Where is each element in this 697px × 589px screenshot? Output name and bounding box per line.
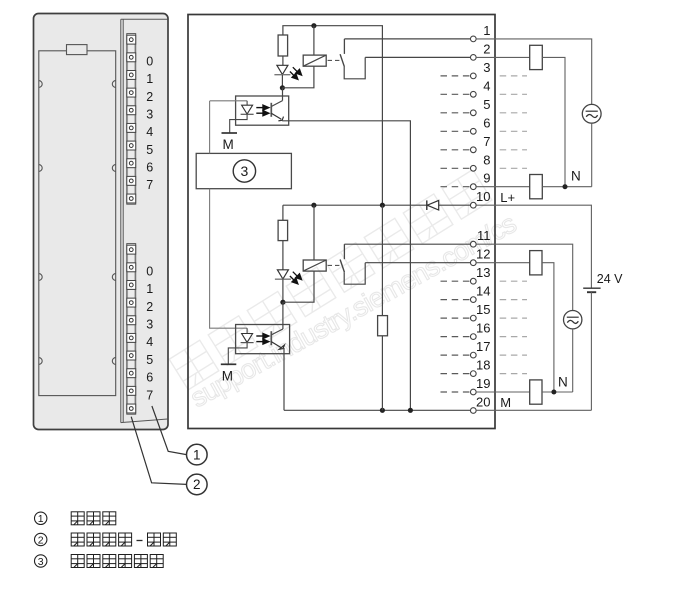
wire terminal 19 through load E4 <box>476 391 530 393</box>
wire rail to R3 <box>381 205 383 315</box>
svg-text:0: 0 <box>146 264 153 278</box>
svg-text:16: 16 <box>476 321 490 336</box>
U1 input LED <box>242 105 253 114</box>
callout circle 1 <box>187 444 208 465</box>
terminal 15 <box>470 315 476 321</box>
svg-text:13: 13 <box>476 265 490 280</box>
wire rail2 to R2 <box>282 205 284 220</box>
wire box3 to U1 <box>209 101 211 154</box>
terminal 12 <box>470 260 476 266</box>
load E4 <box>530 380 542 404</box>
load E1 <box>530 45 543 69</box>
mech link K2 <box>328 264 340 266</box>
svg-text:1: 1 <box>483 23 490 38</box>
module inner panel <box>39 51 116 396</box>
relay contact S2 <box>343 244 345 259</box>
terminal 6 <box>470 128 476 134</box>
callout circle 2 <box>187 474 208 495</box>
resistor R3 <box>378 316 388 336</box>
svg-text:7: 7 <box>146 388 153 402</box>
wire E3 to N node <box>542 263 554 392</box>
optocoupler U1 <box>236 96 289 125</box>
terminal 5 <box>470 110 476 116</box>
dashed stubs inside <box>441 75 471 77</box>
terminal 14 <box>470 297 476 303</box>
U1 coupling arrows <box>256 105 269 116</box>
terminal 17 <box>470 352 476 358</box>
AC source G1 <box>582 104 601 123</box>
optocoupler U2 <box>236 325 290 354</box>
terminal 9 <box>470 184 476 190</box>
svg-text:15: 15 <box>476 302 490 317</box>
wire G2 to N node <box>572 329 574 392</box>
mech link K1 <box>328 59 340 61</box>
leader line to callout 2 <box>131 417 186 485</box>
junction rail1/coil1 <box>311 23 316 28</box>
node N upper <box>563 184 568 189</box>
svg-text:N: N <box>558 374 568 389</box>
svg-text:3: 3 <box>146 318 153 332</box>
U2 coupling arrows <box>256 334 269 345</box>
svg-text:24 V: 24 V <box>597 272 623 286</box>
terminal 3 <box>470 73 476 79</box>
wire terminal 12 through load E3 <box>476 262 530 264</box>
wire LED2-node <box>282 279 284 302</box>
wire S1 to terminal 2 <box>365 56 470 58</box>
svg-text:5: 5 <box>483 97 490 112</box>
load E2 <box>530 175 543 199</box>
svg-text:0: 0 <box>146 55 153 69</box>
module column separator <box>120 19 122 422</box>
wire node-coil2 bottom <box>283 271 314 302</box>
svg-text:1: 1 <box>146 72 153 86</box>
module top strip line <box>121 18 168 20</box>
diode V3 <box>426 200 428 210</box>
svg-text:6: 6 <box>146 371 153 385</box>
terminal 2 <box>470 55 476 61</box>
terminal 4 <box>470 91 476 97</box>
wire U1 emitter to M rail <box>282 121 410 411</box>
wire S2 moving contact <box>344 263 365 285</box>
LED V2 emission arrows <box>290 272 302 284</box>
svg-text:20: 20 <box>476 395 490 410</box>
svg-text:3: 3 <box>146 107 153 121</box>
svg-text:L+: L+ <box>500 190 515 205</box>
LED V2 status <box>277 270 288 279</box>
wire L+ rail circuit 1 <box>283 26 383 206</box>
U1 phototransistor <box>270 103 272 117</box>
terminal 8 <box>470 165 476 171</box>
wire coil1 top to rail <box>313 26 315 55</box>
LED V1 emission arrows <box>290 67 302 79</box>
junction M rail/R3 <box>380 408 385 413</box>
svg-text:4: 4 <box>483 78 490 93</box>
terminal 1 <box>470 36 476 42</box>
svg-text:4: 4 <box>146 335 153 349</box>
svg-text:1: 1 <box>146 282 153 296</box>
terminal 19 <box>470 389 476 395</box>
legend item 1: 通道号 <box>35 512 47 524</box>
legend item 3: 背板总线接口 <box>35 555 47 567</box>
svg-text:8: 8 <box>483 152 490 167</box>
svg-text:1: 1 <box>193 447 201 462</box>
wire terminal 2 through load E1 <box>476 56 530 58</box>
svg-text:12: 12 <box>476 247 490 262</box>
svg-text:support.industry.siemens.com/c: support.industry.siemens.com/cs <box>185 208 521 413</box>
junction rail2/R3 <box>380 203 385 208</box>
legend item 2: 状态显示 - 绿色 <box>35 533 47 545</box>
svg-text:11: 11 <box>477 228 491 243</box>
terminal 20 <box>470 408 476 414</box>
wire M rail terminal 20 <box>284 409 470 411</box>
terminal 18 <box>470 371 476 377</box>
screw notches <box>39 81 42 88</box>
wire U2 emitter down <box>283 348 285 410</box>
resistor R1 <box>278 35 288 56</box>
wire U2 cathode to M <box>228 343 247 365</box>
svg-text:6: 6 <box>146 160 153 174</box>
U2 phototransistor <box>270 331 272 345</box>
wire terminal 1 to AC source 1 <box>476 39 592 105</box>
svg-text:3: 3 <box>483 60 490 75</box>
svg-text:2: 2 <box>146 90 153 104</box>
wire E1 to N node <box>542 57 565 186</box>
LED strip group 1 <box>127 244 136 415</box>
wire L+ to 24V battery <box>476 205 591 288</box>
leader line to callout 1 <box>152 406 187 455</box>
terminal 13 <box>470 278 476 284</box>
svg-text:2: 2 <box>483 41 490 56</box>
junction M rail/U1 emitter <box>408 408 413 413</box>
dashed stubs outside <box>500 75 527 77</box>
wire R2-LED2 <box>282 241 284 270</box>
terminal 10 <box>470 202 476 208</box>
wire node-coil1 bottom <box>282 66 314 88</box>
wire L+ rail terminal 10 <box>283 204 427 206</box>
backplane bus interface box 3 <box>196 153 291 188</box>
svg-text:9: 9 <box>483 171 490 186</box>
svg-text:7: 7 <box>483 134 490 149</box>
wire S1 to terminal 1 <box>344 38 470 40</box>
svg-text:18: 18 <box>476 358 490 373</box>
ground M circuit 2 <box>221 363 237 365</box>
terminal 11 <box>470 241 476 247</box>
svg-text:2: 2 <box>38 534 44 546</box>
svg-text:3: 3 <box>38 556 44 568</box>
svg-text:2: 2 <box>193 477 201 492</box>
svg-text:1: 1 <box>38 513 44 525</box>
svg-text:2: 2 <box>146 300 153 314</box>
AC source G2 <box>564 311 582 329</box>
wire coil2 top to rail <box>313 205 315 260</box>
watermark siemens <box>169 170 521 414</box>
wire U1 cathode to M <box>230 114 247 133</box>
module body <box>34 14 169 430</box>
svg-text:5: 5 <box>146 353 153 367</box>
relay contact S1 <box>343 39 345 54</box>
svg-text:6: 6 <box>483 115 490 130</box>
junction node K2 <box>280 300 285 305</box>
svg-text:3: 3 <box>241 163 249 179</box>
wire bus-U1 anode <box>210 100 247 102</box>
svg-text:N: N <box>571 169 581 184</box>
junction node K1 <box>280 85 285 90</box>
wire R3 to M rail <box>381 336 383 411</box>
wire G1 to N node <box>591 123 593 187</box>
terminal 7 <box>470 147 476 153</box>
wire terminal 9 through load E2 <box>476 186 530 188</box>
wire box3 to U2 <box>210 189 248 329</box>
svg-text:4: 4 <box>146 125 153 139</box>
wire R1-LED1 <box>282 56 284 65</box>
svg-text:M: M <box>222 368 233 383</box>
svg-text:5: 5 <box>146 143 153 157</box>
resistor R2 <box>278 220 288 240</box>
node N lower <box>551 390 556 395</box>
svg-text:17: 17 <box>476 339 490 354</box>
svg-text:M: M <box>223 137 234 152</box>
LED strip group 0 <box>127 34 136 205</box>
wire terminal 11 to AC source 2 <box>476 244 573 310</box>
wire S2 to terminal 12 <box>365 262 470 264</box>
terminal 16 <box>470 334 476 340</box>
svg-text:7: 7 <box>146 178 153 192</box>
wire LED1-node <box>281 75 283 88</box>
load E3 <box>530 251 542 275</box>
ground M circuit 1 <box>222 132 238 134</box>
LED V1 status <box>277 65 288 74</box>
module column bottom edge <box>121 419 168 423</box>
module handle <box>67 45 88 55</box>
svg-text:10: 10 <box>476 189 490 204</box>
wire S1 moving contact <box>344 57 365 78</box>
wire S2 to terminal 11 <box>344 243 470 245</box>
schematic outer box <box>188 15 495 429</box>
svg-text:14: 14 <box>476 284 490 299</box>
wire terminal 20 M to battery minus <box>476 409 591 411</box>
junction rail2/coil2 <box>311 203 316 208</box>
svg-text:M: M <box>500 395 511 410</box>
svg-text:19: 19 <box>476 376 490 391</box>
battery 24V <box>583 287 600 289</box>
relay coil K1 <box>303 55 326 66</box>
relay coil K2 <box>303 260 326 271</box>
U2 input LED <box>242 334 253 343</box>
